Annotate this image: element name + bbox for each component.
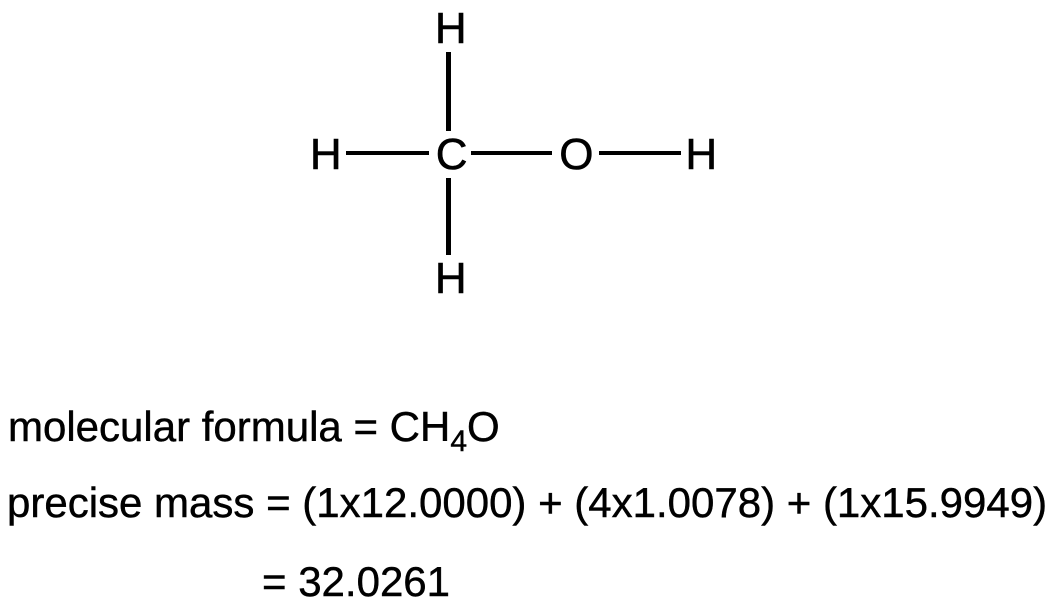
- wire: C–O horizontal bond: [471, 151, 552, 156]
- atom H left: [310, 133, 342, 177]
- atom H right: [685, 133, 717, 177]
- atom H top: [435, 7, 467, 51]
- wire: C–H bottom vertical bond: [446, 178, 451, 256]
- atom C: [436, 133, 468, 177]
- text line 1: molecular formula: [8, 406, 500, 448]
- text line 2: precise mass: [7, 482, 1047, 524]
- atom O: [559, 133, 593, 177]
- wire: H–C left horizontal bond: [346, 151, 429, 156]
- text line 3: result: [262, 561, 450, 603]
- atom H bottom: [435, 257, 467, 301]
- wire: C–H top vertical bond: [446, 52, 451, 131]
- wire: O–H right horizontal bond: [599, 151, 681, 156]
